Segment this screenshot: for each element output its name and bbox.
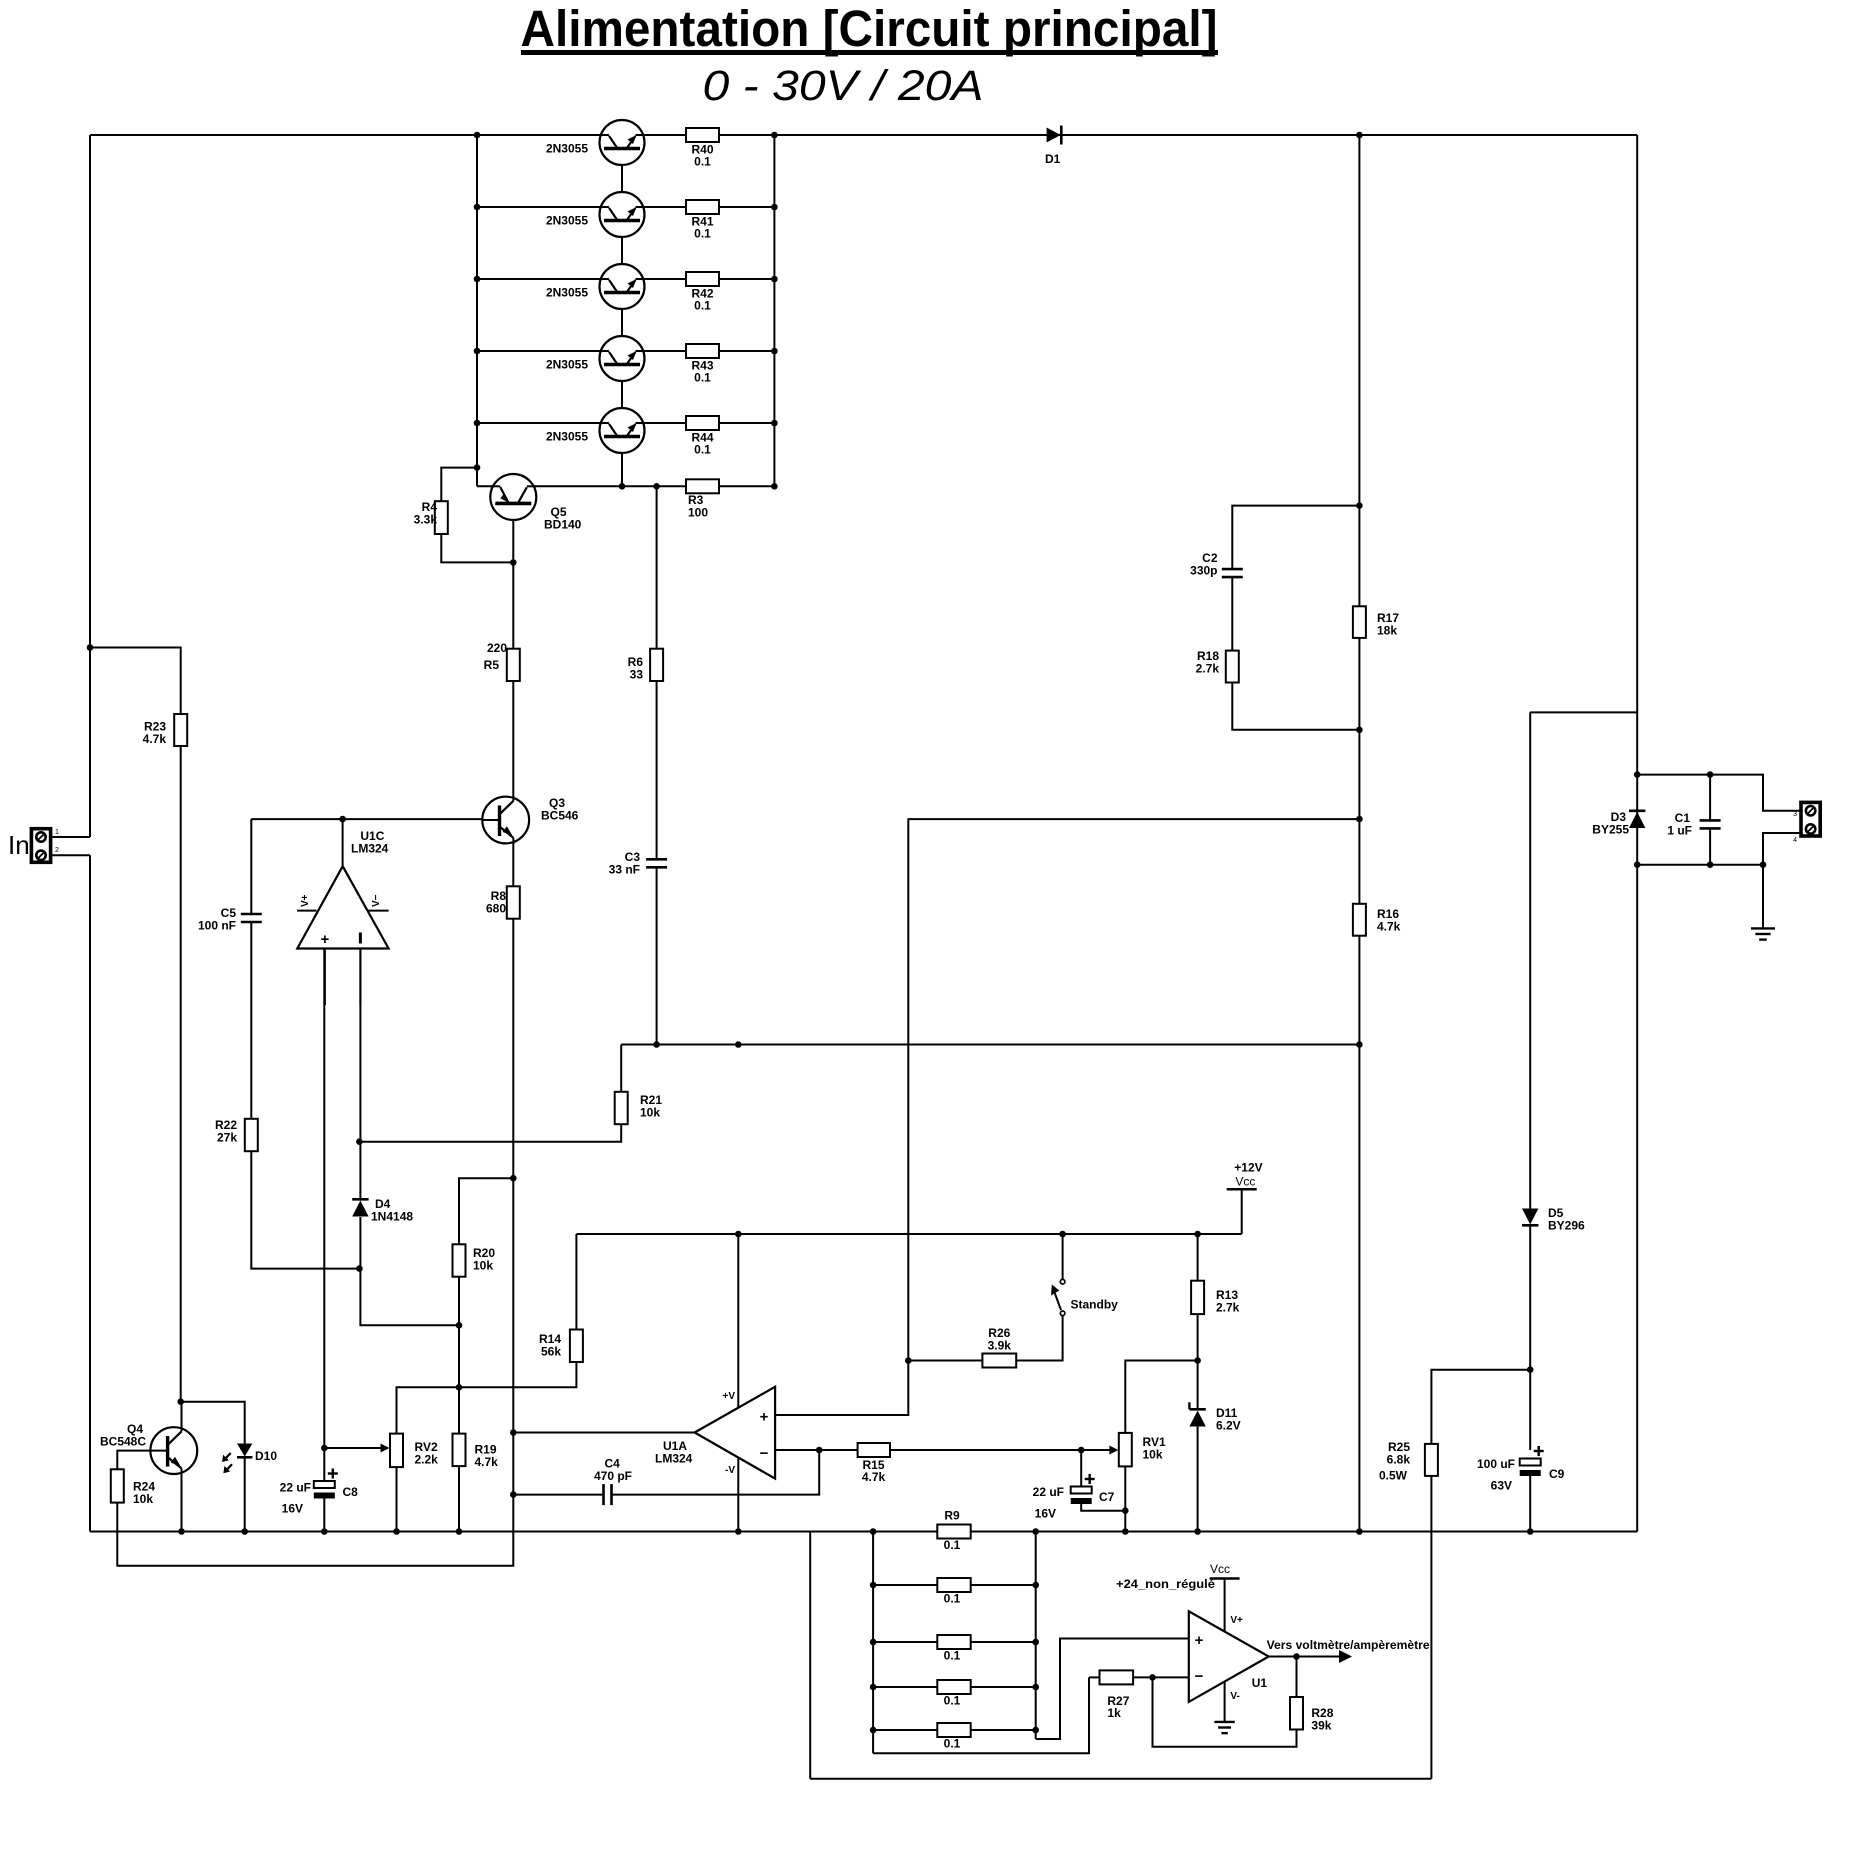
svg-text:0.1: 0.1 <box>944 1737 961 1751</box>
junction wiper node <box>321 1445 328 1452</box>
transistor Q1 2N3055 <box>600 120 645 165</box>
wire Vcc distribution line <box>621 1044 1359 1046</box>
wire minus input lower chain <box>360 1269 459 1326</box>
wire U1C plus input lead <box>324 949 326 1006</box>
svg-text:2N3055: 2N3055 <box>546 358 588 372</box>
junction row3 left <box>474 276 481 283</box>
wire Q3 base wire <box>251 818 481 820</box>
svg-text:0.1: 0.1 <box>944 1592 961 1606</box>
junction R23 top node <box>87 644 94 651</box>
svg-text:0.1: 0.1 <box>944 1649 961 1663</box>
power +12V Vcc symbol <box>1227 1188 1257 1191</box>
junction row4 left <box>474 348 481 355</box>
wire U1 minus input wire <box>1133 1676 1189 1678</box>
junction C2 top node <box>1356 502 1363 509</box>
wire R6 branch <box>656 486 658 648</box>
potentiometer RV1 <box>1081 1433 1132 1467</box>
resistor R28 <box>1290 1697 1303 1730</box>
junction C1 top node <box>1707 771 1714 778</box>
svg-text:Vcc: Vcc <box>1235 1175 1255 1189</box>
wire In pin1 wire <box>51 836 90 838</box>
junction U1 out node <box>1293 1653 1300 1660</box>
svg-text:2: 2 <box>55 847 59 854</box>
svg-text:16V: 16V <box>282 1502 303 1516</box>
wire C5 branch <box>250 819 252 914</box>
junction C4 right node <box>816 1447 823 1454</box>
junction shunt row3 left <box>870 1639 877 1646</box>
junction R6 top node <box>653 483 660 490</box>
resistor R40 <box>686 128 719 142</box>
resistor R8 <box>507 886 520 918</box>
svg-text:39k: 39k <box>1311 1719 1331 1733</box>
wire output pin2 wire <box>1763 833 1801 865</box>
svg-text:10k: 10k <box>640 1106 660 1120</box>
wire U1 V- lead <box>1224 1682 1226 1722</box>
svg-text:Standby: Standby <box>1071 1298 1119 1312</box>
svg-text:1: 1 <box>55 829 59 836</box>
wire D11 anode lead <box>1197 1361 1199 1411</box>
svg-text:+12V: +12V <box>1234 1161 1262 1175</box>
svg-text:2N3055: 2N3055 <box>546 430 588 444</box>
wire C9 bottom lead <box>1529 1476 1531 1532</box>
resistor R43 <box>686 344 719 358</box>
junction C2 return node <box>1356 727 1363 734</box>
junction C7 RV1 node <box>1122 1507 1129 1514</box>
wire U1A -V chain <box>737 1458 739 1531</box>
resistor R20 <box>453 1244 466 1276</box>
ground U1 V- ground <box>1214 1722 1234 1733</box>
svg-text:3.3k: 3.3k <box>414 513 438 527</box>
junction U1A V+ 12V node <box>735 1231 742 1238</box>
junction U1C out node <box>339 816 346 823</box>
wire shunt row 5 wire <box>873 1729 1036 1731</box>
resistor R6 <box>650 649 663 681</box>
wire R20 chain <box>459 1178 513 1244</box>
resistor R13 <box>1191 1281 1204 1314</box>
op-amp U1 <box>1189 1611 1269 1702</box>
transistor Q2 2N3055 <box>600 192 645 237</box>
transistor Q3 BC546 <box>482 796 529 844</box>
junction C4 left node <box>510 1491 517 1498</box>
svg-text:63V: 63V <box>1491 1479 1512 1493</box>
wire R18 return <box>1232 683 1359 730</box>
wire R28 top lead <box>1296 1657 1298 1698</box>
junction row2 left <box>474 204 481 211</box>
svg-text:R9: R9 <box>944 1509 960 1523</box>
wire C3 to Vcc line <box>656 867 658 1044</box>
op-amp U1A <box>695 1387 776 1479</box>
wire R4 bottom branch <box>441 534 513 562</box>
svg-text:4: 4 <box>1793 837 1797 844</box>
wire R25 bottom chain <box>1430 1476 1432 1779</box>
wire left input bus upper <box>89 135 91 837</box>
junction row5 right <box>771 420 778 427</box>
junction rail D11 node <box>1194 1528 1201 1535</box>
wire U1C output stem <box>342 819 344 866</box>
diode D10 <box>222 1444 252 1474</box>
svg-text:+: + <box>321 931 330 948</box>
junction shunt row4 left <box>870 1684 877 1691</box>
svg-text:1k: 1k <box>1107 1706 1121 1720</box>
wire R13 bottom lead <box>1197 1314 1199 1360</box>
wire R6 to C3 <box>656 681 658 859</box>
wire RV2 bottom lead <box>396 1467 398 1531</box>
resistor shunt 0.1 #5 <box>937 1723 970 1737</box>
wire Q5 base / R5 chain <box>512 503 514 648</box>
wire Q3 emitter to R8 <box>512 841 514 886</box>
svg-text:V−: V− <box>371 894 382 907</box>
junction shunt row2 right <box>1032 1582 1039 1589</box>
wire R23 long vertical <box>180 746 182 1402</box>
junction D1 right node <box>1356 132 1363 139</box>
svg-text:0.1: 0.1 <box>694 299 711 313</box>
resistor R9 <box>937 1525 970 1539</box>
resistor R22 <box>245 1119 258 1151</box>
svg-text:6.8k: 6.8k <box>1387 1453 1411 1467</box>
wire right mid bus <box>1358 135 1360 1532</box>
wire C4 right link <box>612 1450 819 1495</box>
wire output ground stem <box>1762 865 1764 929</box>
resistor R42 <box>686 272 719 286</box>
wire U1A minus input wire <box>775 1449 858 1451</box>
capacitor C1 <box>1700 820 1721 828</box>
junction U1A V+ node <box>735 1041 742 1048</box>
resistor R24 <box>111 1469 124 1502</box>
wire top rail <box>90 134 1637 136</box>
wire R5 to Q3 collector <box>512 681 514 800</box>
wire R20 to R19 <box>458 1277 460 1434</box>
wire RV1 bottom lead <box>1124 1466 1126 1531</box>
junction bank bus top <box>474 132 481 139</box>
junction D10 Q4 node <box>177 1398 184 1405</box>
wire R4 top branch <box>441 468 477 502</box>
svg-text:10k: 10k <box>1143 1448 1163 1462</box>
resistor R25 <box>1425 1444 1438 1476</box>
capacitor C2 <box>1222 569 1243 577</box>
wire U1A output wire <box>513 1432 694 1434</box>
resistor R5 <box>507 649 520 681</box>
svg-text:4.7k: 4.7k <box>862 1470 886 1484</box>
svg-text:4.7k: 4.7k <box>1377 920 1401 934</box>
junction rail R19 node <box>456 1528 463 1535</box>
svg-text:0.1: 0.1 <box>694 443 711 457</box>
junction R3 right node <box>771 483 778 490</box>
wire D4 to R22 node <box>359 1217 361 1269</box>
svg-text:+: + <box>760 1409 769 1426</box>
wire base bus of 2N3055 bank <box>621 149 623 487</box>
capacitor C8 <box>314 1469 338 1499</box>
wire standby top lead <box>1062 1234 1064 1279</box>
junction rail C8 node <box>321 1528 328 1535</box>
junction R21 link node <box>356 1138 363 1145</box>
ground output ground <box>1751 928 1775 939</box>
wire C7 bottom link <box>1081 1504 1125 1511</box>
junction base wire node <box>1356 816 1363 823</box>
junction rail bus node <box>1356 1528 1363 1535</box>
wire output bottom parallel wire <box>1637 864 1763 866</box>
junction standby top node <box>1059 1231 1066 1238</box>
title underline <box>521 50 1218 55</box>
svg-text:6.2V: 6.2V <box>1216 1419 1241 1433</box>
junction rail bank left <box>870 1528 877 1535</box>
wire bottom common rail <box>90 1531 1637 1533</box>
transistor Q5 2N3055 <box>600 408 645 453</box>
svg-text:100 uF: 100 uF <box>1477 1457 1515 1471</box>
svg-text:BY255: BY255 <box>1592 823 1629 837</box>
diode D3 <box>1629 811 1645 828</box>
svg-text:C9: C9 <box>1549 1467 1565 1481</box>
wire 2N3055 row 3 wire <box>477 278 774 280</box>
svg-text:V+: V+ <box>300 894 311 907</box>
svg-text:10k: 10k <box>473 1259 493 1273</box>
wire shunt row 2 wire <box>873 1584 1036 1586</box>
junction R25 top node <box>1527 1366 1534 1373</box>
wire Q4 base link <box>117 1451 150 1470</box>
svg-text:56k: 56k <box>541 1345 561 1359</box>
wire R15 to RV1 <box>890 1449 1110 1451</box>
junction R27 right node <box>1149 1674 1156 1681</box>
svg-text:100: 100 <box>688 506 708 520</box>
resistor R15 <box>858 1443 890 1457</box>
wire 2N3055 row 4 wire <box>477 350 774 352</box>
wire R8 to U1A output node <box>512 919 514 1495</box>
wire R14 top lead <box>575 1234 577 1330</box>
svg-text:2.2k: 2.2k <box>415 1453 439 1467</box>
transistor Q4 2N3055 <box>600 336 645 381</box>
op-amp U1C <box>297 866 389 948</box>
svg-text:0.1: 0.1 <box>694 371 711 385</box>
resistor R16 <box>1353 904 1366 936</box>
svg-text:220: 220 <box>487 641 507 655</box>
junction rail RV1 node <box>1122 1528 1129 1535</box>
connector Out connector <box>1801 802 1820 836</box>
svg-text:100 nF: 100 nF <box>198 919 236 933</box>
svg-text:16V: 16V <box>1035 1507 1056 1521</box>
wire RV2 wiper link <box>323 949 325 1449</box>
wire C8 bottom lead <box>323 1499 325 1532</box>
transistor Q5 BD140 <box>490 474 536 520</box>
wire Vcc +12V stem <box>1241 1189 1243 1234</box>
svg-text:−: − <box>1195 1668 1204 1685</box>
svg-text:D1: D1 <box>1045 152 1061 166</box>
junction Vcc line right node <box>1356 1041 1363 1048</box>
svg-text:0 - 30V / 20A: 0 - 30V / 20A <box>703 62 984 110</box>
junction R26 left node <box>905 1357 912 1364</box>
junction C7 top node <box>1078 1447 1085 1454</box>
power Vcc symbol U1 <box>1210 1577 1240 1580</box>
diode D5 <box>1522 1209 1538 1226</box>
junction rail Q4 node <box>178 1528 185 1535</box>
wire D11 to rail <box>1197 1427 1199 1532</box>
wire Q4 collector link <box>181 1402 183 1428</box>
wire RV1 top lead <box>1125 1361 1197 1433</box>
junction row2 right <box>771 204 778 211</box>
wire driver row wire <box>477 485 774 487</box>
switch Standby <box>1051 1279 1065 1315</box>
svg-text:22 uF: 22 uF <box>280 1481 311 1495</box>
svg-text:BC546: BC546 <box>541 809 579 823</box>
resistor R14 <box>570 1330 583 1363</box>
svg-text:U1: U1 <box>1252 1676 1268 1690</box>
capacitor C7 <box>1071 1474 1095 1504</box>
wire output top parallel wire <box>1637 775 1801 811</box>
resistor shunt 0.1 #3 <box>937 1635 970 1649</box>
junction R20 top node <box>510 1175 517 1182</box>
wire shunt loop left <box>809 1532 811 1779</box>
resistor R27 <box>1100 1670 1134 1684</box>
wire right output bus <box>1636 135 1638 1532</box>
svg-text:4.7k: 4.7k <box>475 1455 499 1469</box>
wire R23 top branch <box>90 648 181 715</box>
svg-text:22 uF: 22 uF <box>1033 1485 1064 1499</box>
svg-text:4.7k: 4.7k <box>143 732 167 746</box>
wire shunt bank right bus <box>1035 1532 1037 1740</box>
wire RV2 R19 top wire <box>397 1362 577 1434</box>
capacitor C4 <box>604 1484 612 1505</box>
wire shunt loop bottom <box>810 1778 1431 1780</box>
junction rail D10 node <box>241 1528 248 1535</box>
diode D1 <box>1047 126 1062 145</box>
svg-text:0.5W: 0.5W <box>1379 1469 1408 1483</box>
junction rail RV2 node <box>393 1528 400 1535</box>
junction row3 right <box>771 276 778 283</box>
junction output bottom node <box>1634 861 1641 868</box>
wire C8 top lead <box>323 1448 325 1481</box>
svg-text:0.1: 0.1 <box>694 155 711 169</box>
wire U1C minus input lead <box>359 949 361 1006</box>
svg-text:LM324: LM324 <box>351 842 389 856</box>
wire U1 V+ lead <box>1224 1579 1226 1632</box>
svg-text:2N3055: 2N3055 <box>546 286 588 300</box>
resistor R19 <box>453 1434 466 1467</box>
junction shunt row5 right <box>1032 1727 1039 1734</box>
junction row4 right <box>771 348 778 355</box>
capacitor C5 <box>241 914 262 922</box>
svg-text:V-: V- <box>1230 1691 1239 1702</box>
wire U1C minus input chain <box>359 949 361 1200</box>
wire 2N3055 row 2 wire <box>477 206 774 208</box>
wire wiper horizontal <box>324 1447 381 1449</box>
wire shunt row 3 wire <box>873 1641 1036 1643</box>
resistor R44 <box>686 416 719 430</box>
wire U1A plus input chain <box>775 819 1359 1415</box>
junction base bus bottom <box>619 483 626 490</box>
svg-text:3.9k: 3.9k <box>988 1339 1012 1353</box>
resistor R4 <box>435 501 448 534</box>
wire R19 bottom lead <box>458 1466 460 1531</box>
resistor R21 <box>615 1092 628 1124</box>
wire U1 feedback loop <box>1153 1677 1297 1746</box>
junction output top node <box>1634 771 1641 778</box>
diode D11 <box>1189 1402 1205 1426</box>
transistor Q3 2N3055 <box>600 264 645 309</box>
svg-text:+V: +V <box>722 1391 735 1402</box>
resistor R18 <box>1226 651 1239 683</box>
svg-text:3: 3 <box>1793 811 1797 818</box>
junction R13 bottom node <box>1194 1357 1201 1364</box>
wire D10 bottom link <box>244 1458 246 1532</box>
svg-text:0.1: 0.1 <box>944 1538 961 1552</box>
junction shunt row3 right <box>1032 1639 1039 1646</box>
svg-text:27k: 27k <box>217 1131 237 1145</box>
junction shunt row4 right <box>1032 1684 1039 1691</box>
wire C2 branch top <box>1232 506 1359 569</box>
wire D10 top link <box>181 1402 245 1444</box>
wire bank left bus <box>476 135 478 486</box>
resistor R3 <box>686 479 719 493</box>
svg-text:18k: 18k <box>1377 624 1397 638</box>
svg-text:-V: -V <box>725 1465 735 1476</box>
svg-text:−: − <box>760 1445 769 1462</box>
svg-text:330p: 330p <box>1190 564 1217 578</box>
junction R4 branch <box>474 464 481 471</box>
svg-text:BD140: BD140 <box>544 518 582 532</box>
svg-text:+24_non_régulé: +24_non_régulé <box>1116 1577 1215 1591</box>
svg-text:10k: 10k <box>133 1492 153 1506</box>
wire bank to R27 return <box>873 1677 1089 1753</box>
junction shunt row5 left <box>870 1727 877 1734</box>
junction rail U1A node <box>735 1528 742 1535</box>
capacitor C9 <box>1520 1446 1544 1476</box>
resistor R26 <box>982 1354 1016 1368</box>
svg-text:C8: C8 <box>343 1485 359 1499</box>
diode D4 <box>352 1199 368 1216</box>
wire +12V rail <box>576 1233 1241 1235</box>
svg-text:+: + <box>1195 1632 1204 1649</box>
svg-text:Vcc: Vcc <box>1210 1562 1230 1576</box>
wire C1 top lead <box>1709 775 1711 821</box>
wire R24 bottom return <box>117 1495 513 1566</box>
svg-text:680: 680 <box>486 902 506 916</box>
junction bank right bus top <box>771 132 778 139</box>
junction row5 left <box>474 420 481 427</box>
wire shunt row 4 wire <box>873 1686 1036 1688</box>
svg-text:In: In <box>8 830 30 860</box>
wire R22 to D4 node <box>251 1151 359 1268</box>
wire C1 bottom lead <box>1709 828 1711 864</box>
wire C2 to R18 <box>1231 577 1233 650</box>
wire U1 output arrow <box>1269 1656 1345 1658</box>
wire R21 bottom link <box>359 1124 621 1142</box>
wire R26 left lead <box>908 1360 982 1362</box>
svg-text:33: 33 <box>630 668 644 682</box>
svg-text:LM324: LM324 <box>655 1452 693 1466</box>
wire U1A +V chain <box>737 1234 739 1409</box>
svg-text:2.7k: 2.7k <box>1196 662 1220 676</box>
junction R13 top node <box>1194 1231 1201 1238</box>
junction C3 bottom node <box>653 1041 660 1048</box>
wire R21 top link <box>620 1045 622 1092</box>
junction rail C9 node <box>1527 1528 1534 1535</box>
wire D5 to C9 node <box>1529 1226 1531 1450</box>
svg-text:BY296: BY296 <box>1548 1219 1585 1233</box>
wire 2N3055 row 5 wire <box>477 422 774 424</box>
junction R20 bottom node <box>456 1322 463 1329</box>
junction D4 bottom node <box>356 1265 363 1272</box>
wire D5 top chain <box>1529 712 1531 1209</box>
svg-text:2N3055: 2N3055 <box>546 214 588 228</box>
wire C7 branch <box>1080 1450 1082 1487</box>
wire D5 feed wire <box>1530 711 1637 713</box>
junction shunt row2 left <box>870 1582 877 1589</box>
resistor R23 <box>174 714 187 746</box>
junction Q5 base R4 node <box>510 559 517 566</box>
junction rail bank right <box>1032 1528 1039 1535</box>
wire C4 left link <box>513 1494 603 1496</box>
svg-text:C7: C7 <box>1099 1490 1115 1504</box>
junction R19 top cross node <box>456 1384 463 1391</box>
resistor R41 <box>686 200 719 214</box>
